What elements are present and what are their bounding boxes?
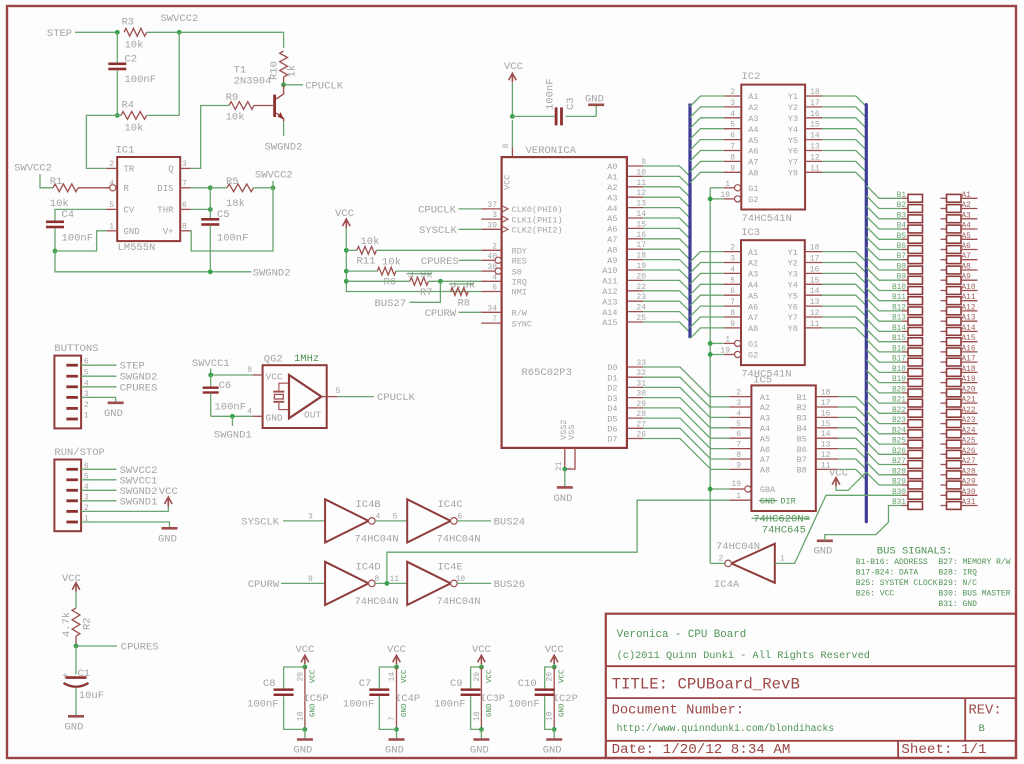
svg-text:Y1: Y1	[788, 248, 798, 258]
svg-text:B13: B13	[892, 315, 906, 323]
node CPURES junction	[74, 644, 79, 649]
wire IC4A input to B30	[775, 495, 902, 563]
svg-text:A1: A1	[607, 173, 617, 183]
transceiver IC5 74HC645 body	[751, 385, 815, 511]
connector pin B14	[902, 330, 908, 332]
ground symbol IC3P	[473, 738, 489, 741]
IC5 pin 12 B7	[816, 458, 838, 460]
svg-text:B28: B28	[892, 468, 906, 476]
connector pin A4	[941, 228, 947, 230]
svg-text:CPUCLK: CPUCLK	[418, 204, 457, 216]
wire bus to B6	[866, 237, 902, 250]
svg-text:GND: GND	[401, 703, 409, 717]
svg-text:18: 18	[810, 88, 820, 97]
IC5 pin 13 B6	[816, 448, 838, 450]
svg-text:A1: A1	[760, 393, 770, 403]
svg-text:Y3: Y3	[788, 270, 798, 280]
svg-text:B6: B6	[797, 445, 807, 455]
wire bus to IC2 A7	[690, 161, 724, 172]
IC1 pin 3 Q	[180, 167, 191, 169]
wire IC2 Y4 to data bus	[822, 129, 866, 140]
svg-text:D4: D4	[607, 404, 617, 414]
svg-text:A10: A10	[962, 284, 976, 292]
IC1 pin 8 V+	[180, 230, 191, 232]
IC5 pin 9 A8	[729, 468, 751, 470]
wire SWVCC1 to pin 8	[211, 369, 253, 376]
svg-text:Y1: Y1	[788, 92, 798, 102]
wire C8 loop	[284, 667, 305, 688]
svg-text:Y7: Y7	[788, 313, 798, 323]
IC2 pin 6 A5	[724, 139, 741, 141]
svg-text:10k: 10k	[125, 40, 144, 52]
svg-text:5: 5	[109, 201, 114, 210]
svg-text:B7: B7	[897, 253, 907, 261]
svg-text:CLK1(PHI1): CLK1(PHI1)	[512, 215, 563, 225]
wire D3 to IC5	[643, 398, 729, 428]
svg-text:B23: B23	[892, 417, 906, 425]
svg-text:16: 16	[821, 409, 831, 418]
svg-text:GND: GND	[470, 745, 489, 757]
svg-text:VCC: VCC	[62, 573, 81, 585]
wire D1 to IC5	[643, 377, 729, 407]
svg-text:5: 5	[393, 512, 398, 521]
svg-text:13: 13	[810, 298, 820, 307]
IC5 pin 17 B2	[816, 406, 838, 408]
svg-text:100nF: 100nF	[434, 699, 466, 711]
wire C6 to pin 4	[211, 415, 253, 417]
svg-text:Y8: Y8	[788, 324, 798, 334]
svg-text:B4: B4	[897, 223, 907, 231]
svg-text:A4: A4	[748, 281, 758, 291]
svg-text:A20: A20	[962, 386, 976, 394]
CPU pin 12 A3	[627, 196, 643, 198]
node SWVCC2 top junction	[177, 30, 182, 35]
svg-text:B4: B4	[797, 424, 807, 434]
svg-text:GND: GND	[385, 745, 404, 757]
svg-text:9: 9	[308, 575, 313, 584]
svg-text:11: 11	[390, 575, 400, 584]
CPU pin 7 SYNC	[481, 322, 501, 324]
wire bus to B25	[866, 431, 902, 444]
IC5 pin 4 A3	[729, 416, 751, 418]
svg-text:A30: A30	[962, 489, 976, 497]
svg-text:20: 20	[546, 672, 555, 682]
svg-text:B5: B5	[797, 434, 807, 444]
svg-text:2: 2	[84, 401, 89, 410]
svg-text:74HC04N: 74HC04N	[355, 596, 399, 608]
svg-text:Y4: Y4	[788, 125, 798, 135]
QG2 internal crystal	[279, 383, 289, 390]
svg-text:REV:: REV:	[969, 704, 1002, 719]
svg-text:OUT: OUT	[304, 410, 321, 421]
svg-text:B19: B19	[892, 376, 906, 384]
node SWGND1 junction	[230, 414, 235, 419]
CPU pin 38 S0	[481, 270, 494, 272]
svg-text:TITLE: CPUBoard_RevB: TITLE: CPUBoard_RevB	[612, 675, 800, 693]
wire A6 to address bus	[643, 228, 690, 239]
svg-text:D0: D0	[607, 363, 617, 373]
wire bus to IC3 A2	[690, 263, 724, 274]
wire bus to B15	[866, 329, 902, 342]
IC3 pin 7 A6	[724, 305, 741, 307]
svg-text:2: 2	[736, 389, 741, 398]
IC3 pin 6 A5	[724, 294, 741, 296]
svg-text:VCC: VCC	[335, 208, 354, 220]
wire IC5 B8 to data bus	[838, 469, 866, 480]
connector pin A28	[941, 474, 947, 476]
CPU pin 15 A6	[627, 227, 643, 229]
svg-text:A8: A8	[748, 324, 758, 334]
connector pin B30	[902, 494, 908, 496]
ground symbol B31	[817, 539, 833, 542]
svg-text:C5: C5	[217, 209, 230, 221]
capacitor C4 100nF	[46, 221, 64, 224]
wire IC5P to GND	[304, 729, 306, 739]
svg-text:IC4D: IC4D	[356, 562, 381, 574]
svg-text:D1: D1	[607, 373, 617, 383]
wire DIR to IC4D output	[387, 500, 730, 583]
svg-text:R1: R1	[50, 176, 63, 188]
CPU pin 18 A9	[627, 259, 643, 261]
connector pin A23	[941, 423, 947, 425]
wire IC4E out BUS26	[457, 582, 491, 584]
IC2 pin 16 Y3	[805, 117, 822, 119]
connector pin A5	[941, 238, 947, 240]
connector pin A19	[941, 382, 947, 384]
svg-text:Y7: Y7	[788, 158, 798, 168]
wire A0 to address bus	[643, 166, 690, 177]
svg-text:IC4B: IC4B	[356, 499, 381, 511]
svg-text:A15: A15	[602, 318, 617, 328]
ground symbol IC2P	[546, 738, 562, 741]
svg-text:CV: CV	[124, 206, 135, 216]
CPU pin 28 D5	[627, 417, 643, 419]
net label CPURES / wire to RES	[459, 259, 482, 261]
svg-text:B29: B29	[892, 479, 906, 487]
svg-text:4: 4	[376, 512, 381, 521]
svg-text:8: 8	[736, 451, 741, 460]
svg-text:A15: A15	[962, 335, 976, 343]
connector pin A2	[941, 208, 947, 210]
svg-text:B3: B3	[797, 414, 807, 424]
ground symbol below CPU	[557, 486, 573, 489]
IC2 pin 15 Y4	[805, 128, 822, 130]
CPU pin 1 VSS bottom	[565, 448, 575, 469]
svg-text:Date: 1/20/12 8:34 AM: Date: 1/20/12 8:34 AM	[612, 742, 791, 758]
svg-text:15: 15	[810, 276, 820, 285]
inverter IC4D 74HC04N	[325, 562, 368, 605]
svg-text:A23: A23	[962, 417, 976, 425]
wire bus to B17	[866, 349, 902, 362]
buffer IC2 74HC541N body	[741, 85, 805, 210]
svg-text:A7: A7	[748, 313, 758, 323]
svg-text:DIS: DIS	[157, 184, 173, 194]
svg-text:5: 5	[336, 387, 341, 396]
svg-text:15: 15	[810, 121, 820, 130]
svg-text:A28: A28	[962, 468, 976, 476]
svg-text:A29: A29	[962, 479, 976, 487]
wire enable G1 IC3	[710, 342, 724, 344]
connector pin A13	[941, 320, 947, 322]
wire enable G2 IC2	[710, 198, 724, 200]
svg-text:3.3k: 3.3k	[450, 280, 475, 292]
svg-text:B31: GND: B31: GND	[939, 600, 978, 609]
CPU pin 37 CLK0(PHI0)	[481, 208, 501, 210]
connector pin B9	[902, 279, 908, 281]
svg-text:A12: A12	[602, 287, 617, 297]
svg-text:5: 5	[736, 420, 741, 429]
QG2 pin 4 GND	[253, 415, 263, 417]
svg-text:A13: A13	[962, 315, 976, 323]
svg-text:B26: B26	[892, 448, 906, 456]
svg-text:A9: A9	[607, 256, 617, 266]
net label CPURW / wire to R/W	[459, 311, 482, 313]
IC1 pin 5 CV	[106, 208, 117, 210]
wire IC5 B7 to data bus	[838, 459, 866, 470]
wire bus to B18	[866, 360, 902, 373]
wire bus to B14	[866, 319, 902, 332]
svg-text:8: 8	[502, 143, 511, 148]
svg-text:B8: B8	[797, 466, 807, 476]
svg-text:B24: B24	[892, 427, 906, 435]
wire GND pin drop	[55, 231, 106, 251]
wire VSS to GND	[564, 469, 566, 487]
wire IC3 Y6 to data bus	[822, 306, 866, 317]
wire VCC to bus B26	[836, 472, 866, 490]
svg-text:D3: D3	[607, 394, 617, 404]
wire bus to B16	[866, 339, 902, 352]
CPU pin 21 VSS2 bottom	[564, 448, 566, 469]
svg-text:A7: A7	[962, 253, 972, 261]
svg-text:9: 9	[730, 164, 735, 173]
capacitor C2	[116, 32, 118, 62]
wire IC2 Y2 to data bus	[822, 107, 866, 118]
svg-text:16: 16	[810, 110, 820, 119]
CPU pin 39 CLK2(PHI2)	[481, 228, 501, 230]
svg-text:1: 1	[780, 554, 785, 563]
wire VCC to C3 and GND	[512, 115, 554, 117]
IC2 pin 19 G2	[724, 198, 735, 200]
svg-text:B27: MEMORY R/W: B27: MEMORY R/W	[939, 558, 1011, 567]
IC2 pin 13 Y6	[805, 150, 822, 152]
svg-text:6: 6	[730, 132, 735, 141]
svg-text:GND: GND	[266, 413, 283, 424]
svg-text:D6: D6	[607, 425, 617, 435]
QG2 pin 8 VCC	[253, 374, 263, 376]
svg-text:Y5: Y5	[788, 291, 798, 301]
svg-text:BUTTONS: BUTTONS	[54, 343, 98, 355]
wire SYSCLK to IC4B	[283, 520, 325, 522]
svg-text:15: 15	[821, 420, 831, 429]
wire bus to IC2 A8	[690, 172, 724, 183]
wire D4 to IC5	[643, 408, 729, 438]
bus BACKPLANE (right vertical)	[865, 105, 868, 522]
wire IC5 B1 to data bus	[838, 397, 866, 408]
IC3 pin 15 Y4	[805, 283, 822, 285]
connector pin A14	[941, 330, 947, 332]
node C4 bottom junction	[53, 249, 58, 254]
connector pin A21	[941, 402, 947, 404]
CPU pin 27 D6	[627, 427, 643, 429]
connector pin A6	[941, 249, 947, 251]
CPU pin 26 D7	[627, 438, 643, 440]
wire IC4A output to enable net	[710, 562, 725, 564]
svg-text:IC5P: IC5P	[303, 693, 328, 705]
wire D7 to IC5	[643, 439, 729, 470]
connector pin A29	[941, 484, 947, 486]
svg-text:13: 13	[810, 143, 820, 152]
svg-text:2: 2	[730, 244, 735, 253]
svg-text:SWGND2: SWGND2	[265, 142, 303, 154]
wire D0 to IC5	[643, 367, 729, 397]
svg-text:6: 6	[458, 512, 463, 521]
svg-text:C6: C6	[219, 380, 232, 392]
svg-text:B27: B27	[892, 458, 906, 466]
title block frame	[606, 614, 1016, 758]
IC2 pin 9 A8	[724, 171, 741, 173]
svg-text:3: 3	[730, 255, 735, 264]
svg-text:40: 40	[487, 252, 497, 261]
svg-text:10uF: 10uF	[79, 690, 104, 702]
CPU pin 24 A14	[627, 311, 643, 313]
wire SYSCLK to CLK2	[459, 228, 482, 230]
svg-text:A3: A3	[962, 212, 972, 220]
svg-text:A24: A24	[962, 427, 976, 435]
wire bus to B21	[866, 390, 902, 403]
resistor R8 3.3k (NMI)	[451, 288, 469, 296]
CPU pin 2 RDY	[481, 249, 501, 251]
IC2 pin 7 A6	[724, 150, 741, 152]
wire IC4B out to IC4C in	[375, 520, 407, 522]
svg-text:SWGND1: SWGND1	[120, 496, 158, 508]
wire IC2 Y5 to data bus	[822, 140, 866, 151]
wire VCC pullup vertical	[346, 228, 481, 291]
svg-text:R6: R6	[384, 276, 397, 288]
wire CPURES out	[76, 645, 117, 647]
svg-text:A19: A19	[962, 376, 976, 384]
svg-text:4: 4	[736, 409, 741, 418]
wire V+ to SWVCC2	[191, 188, 273, 251]
inverter IC4B 74HC04N	[325, 499, 368, 542]
wire bus to B12	[866, 298, 902, 311]
svg-text:4: 4	[730, 265, 735, 274]
svg-text:Q: Q	[168, 165, 173, 175]
node IRQ pullup junction	[344, 279, 349, 284]
svg-text:B16: B16	[892, 345, 906, 353]
connector pin A26	[941, 453, 947, 455]
svg-text:CPURES: CPURES	[120, 382, 158, 394]
node C5/SWGND2 junction	[208, 269, 213, 274]
connector pin A10	[941, 290, 947, 292]
svg-text:CPUCLK: CPUCLK	[377, 392, 416, 404]
wire D2 to IC5	[643, 387, 729, 417]
CPU pin 20 A11	[627, 279, 643, 281]
svg-text:2: 2	[730, 88, 735, 97]
svg-text:VCC: VCC	[559, 669, 567, 683]
connector pin B3	[902, 218, 908, 220]
svg-text:RDY: RDY	[512, 247, 527, 257]
svg-text:SYNC: SYNC	[512, 319, 532, 329]
connector pin B22	[902, 412, 908, 414]
wire bus to B3	[866, 206, 902, 219]
svg-text:A1: A1	[748, 248, 758, 258]
wire bus to IC3 A8	[690, 328, 724, 339]
svg-text:74HC04N: 74HC04N	[355, 534, 399, 546]
connector pin B24	[902, 433, 908, 435]
svg-text:CPURES: CPURES	[421, 256, 459, 268]
svg-text:B2: B2	[797, 403, 807, 413]
svg-text:6: 6	[182, 201, 187, 210]
wire IC3 Y3 to data bus	[822, 273, 866, 284]
bus ADDRESS (left vertical)	[688, 104, 691, 339]
wire RUN/STOP pin2 to VCC	[81, 507, 168, 512]
svg-text:VSS: VSS	[567, 425, 577, 440]
svg-text:R/W: R/W	[512, 309, 528, 319]
wire BUTTONS pin3 to GND	[81, 397, 116, 402]
capacitor C9 100nF	[461, 688, 481, 691]
svg-text:B29: N/C: B29: N/C	[939, 579, 978, 588]
wire bus to B26	[866, 442, 902, 455]
svg-text:CPURW: CPURW	[248, 579, 280, 591]
connector pin B20	[902, 392, 908, 394]
wire bus to B10	[866, 278, 902, 291]
connector pin B11	[902, 300, 908, 302]
svg-text:3: 3	[308, 512, 313, 521]
svg-text:GND: GND	[760, 496, 775, 506]
svg-text:A5: A5	[760, 434, 770, 444]
svg-text:7: 7	[182, 179, 187, 188]
connector pin B27	[902, 464, 908, 466]
svg-text:4: 4	[492, 273, 497, 282]
svg-text:SYSCLK: SYSCLK	[419, 225, 458, 237]
svg-text:B14: B14	[892, 325, 906, 333]
wire bus to B19	[866, 370, 902, 383]
svg-text:A21: A21	[962, 397, 976, 405]
wire A8 to address bus	[643, 249, 690, 260]
wire DIS to R5 node	[191, 187, 210, 189]
svg-text:CLK2(PHI2): CLK2(PHI2)	[512, 226, 563, 236]
connector pin A31	[941, 505, 947, 507]
svg-text:CPUCLK: CPUCLK	[305, 80, 344, 92]
IC3 pin 5 A4	[724, 283, 741, 285]
connector pin B10	[902, 290, 908, 292]
wire BUTTONS pin6 STEP	[81, 364, 116, 366]
IC5 pin 6 A5	[729, 437, 751, 439]
svg-text:A3: A3	[760, 414, 770, 424]
svg-text:G1: G1	[748, 340, 758, 350]
svg-text:7: 7	[388, 716, 397, 721]
svg-text:1: 1	[109, 222, 114, 231]
svg-text:B8: B8	[897, 264, 907, 272]
CPU pin 11 A2	[627, 186, 643, 188]
svg-text:Y8: Y8	[788, 169, 798, 179]
svg-text:A9: A9	[962, 274, 972, 282]
svg-text:12: 12	[821, 451, 831, 460]
svg-text:A31: A31	[962, 499, 976, 507]
connector pin A20	[941, 392, 947, 394]
svg-text:100nF: 100nF	[247, 699, 279, 711]
svg-text:7: 7	[492, 315, 497, 324]
connector pin A12	[941, 310, 947, 312]
connector pin B16	[902, 351, 908, 353]
resistor R2 4.7k	[72, 608, 80, 636]
svg-text:STEP: STEP	[47, 28, 72, 40]
svg-text:4: 4	[247, 407, 252, 416]
inverter IC4C 74HC04N	[407, 499, 450, 542]
wire A9 to address bus	[643, 260, 690, 271]
svg-text:10k: 10k	[125, 123, 144, 135]
wire enable G2 IC3	[710, 354, 724, 356]
